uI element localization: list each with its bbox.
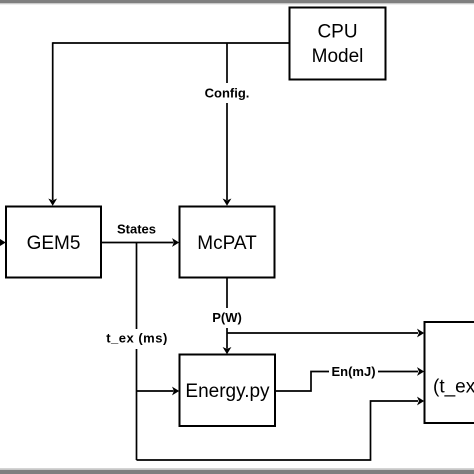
arrowhead into result box (top input) xyxy=(417,329,424,338)
svg-text:Config.: Config. xyxy=(205,86,250,101)
svg-text:Model: Model xyxy=(312,46,364,67)
wire: Config vertical down to McPAT top xyxy=(226,43,228,200)
top border bar xyxy=(0,0,474,4)
wire: t_ex vertical from States junction down xyxy=(136,243,138,461)
svg-text:McPAT: McPAT xyxy=(197,233,257,254)
wire: McPAT bottom down to Energy.py top (P(W)) xyxy=(226,278,228,349)
wire: P(W) branch right to result box xyxy=(227,332,418,334)
arrowhead into GEM5 top xyxy=(48,199,57,206)
svg-text:Energy.py: Energy.py xyxy=(185,381,270,402)
arrowhead into result box (middle input) xyxy=(417,367,424,376)
box: CPU Model xyxy=(290,8,386,80)
arrowhead into GEM5 left xyxy=(0,238,6,247)
wire: corner down to GEM5 top xyxy=(52,42,54,200)
wire: input arrow into GEM5 left edge xyxy=(0,242,2,244)
svg-text:P(W): P(W) xyxy=(212,310,242,325)
wire: Energy.py right to En(mJ) route xyxy=(275,372,418,392)
svg-text:CPU: CPU xyxy=(317,22,357,43)
arrowhead into Energy.py top xyxy=(223,347,232,354)
arrowhead into McPAT top xyxy=(223,199,232,206)
svg-text:GEM5: GEM5 xyxy=(27,233,81,254)
label Config. xyxy=(202,83,253,103)
wire: States (GEM5 to McPAT) xyxy=(101,242,174,244)
wire: branch arrow into Energy.py left edge xyxy=(137,390,174,392)
svg-text:En(mJ): En(mJ) xyxy=(331,364,375,379)
wire: CPU Model to Config corner (horizontal) xyxy=(53,42,290,44)
arrowhead into result box (bottom input) xyxy=(417,397,424,406)
box: McPAT xyxy=(180,207,275,278)
wire: bottom route from t_ex line to result box xyxy=(137,401,419,460)
label En(mJ) xyxy=(329,362,378,381)
label P(W) xyxy=(208,308,246,328)
arrowhead into McPAT left xyxy=(172,238,179,247)
label t_ex (ms) xyxy=(104,329,170,349)
arrowhead into Energy.py left xyxy=(172,387,179,396)
bottom border bar xyxy=(0,468,474,474)
box: Energy.py xyxy=(180,355,276,427)
box: result (t_ex ... (cut off at right edge) xyxy=(425,322,474,423)
box: GEM5 xyxy=(6,207,101,278)
svg-text:States: States xyxy=(117,222,156,237)
svg-text:t_ex (ms): t_ex (ms) xyxy=(106,331,168,346)
svg-text:(t_ex: (t_ex xyxy=(433,377,474,398)
